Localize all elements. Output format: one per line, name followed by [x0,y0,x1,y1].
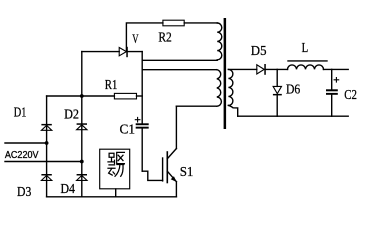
block drive unit box [100,149,130,189]
svg-text:D1: D1 [14,106,27,121]
wire bridge left vertical [46,96,48,197]
svg-text:C1: C1 [120,122,136,137]
transformer secondary winding [228,69,233,105]
diode D5 [257,64,266,75]
wire primary winding feed [142,69,217,71]
wire diode V anode feed [82,51,119,53]
diode D2 [77,123,87,129]
wire clamp winding return [142,59,217,61]
wire bridge top rail left of R1 [47,95,115,97]
diode V [119,47,128,57]
wire V cathode to node X [127,51,142,53]
emitter lead [175,182,177,197]
svg-text:S1: S1 [180,165,194,180]
wire secondary top to D5 [228,68,256,70]
wire output bottom rail [238,115,349,117]
transformer clamp winding [217,23,222,60]
svg-text:L: L [302,41,309,56]
wire node X vertical upper [141,52,143,124]
node junction AC top to bridge left [45,141,49,145]
transformer core [224,18,227,129]
wire L to output [324,68,349,70]
node junction AC bottom to bridge right [80,160,84,164]
body bar [166,152,168,183]
diode D1 [41,124,51,130]
diode D3 [41,174,51,180]
wire R1 right to node X line [137,95,143,97]
collector diagonal [167,149,176,159]
wire AC input top [5,142,47,144]
capacitor C2 [326,69,339,116]
wire bottom rail [47,196,177,198]
collector lead [175,106,177,148]
wire node X vertical lower [141,129,143,172]
wire primary bottom to collector [176,105,216,107]
diode D6 [273,69,282,116]
capacitor C1 [135,117,148,128]
svg-text:V: V [132,31,139,46]
inductor L core line [288,60,327,62]
gate bar [162,158,164,181]
transformer primary winding [217,70,222,106]
svg-text:D4: D4 [61,182,76,197]
wire secondary bottom lead [228,105,237,116]
diode D4 [77,174,87,180]
svg-text:D5: D5 [251,44,267,59]
svg-text:D3: D3 [17,185,31,200]
svg-text:R1: R1 [105,78,118,93]
wire D5 cathode to L [266,68,288,70]
resistor R2 [163,20,184,26]
resistor R1 [114,93,136,99]
text drive char dong [108,165,124,177]
emitter diagonal with arrow [167,171,176,182]
wire drive box to bottom rail [115,189,117,197]
inductor L [288,65,324,70]
wire gate drive step [142,171,162,180]
svg-text:D2: D2 [64,108,79,123]
wire AC input bottom [5,161,82,163]
svg-text:AC220V: AC220V [5,150,39,161]
text drive char qu [108,152,124,163]
svg-text:R2: R2 [158,30,171,45]
svg-text:D6: D6 [286,83,300,98]
wire bridge right vertical [81,52,83,197]
wire R2 to clamp winding [184,22,217,24]
svg-text:C2: C2 [344,88,357,103]
node junction dot bridge plus [80,94,84,98]
wire V cathode up to R2 [126,23,162,52]
transistor S1 [163,106,177,197]
